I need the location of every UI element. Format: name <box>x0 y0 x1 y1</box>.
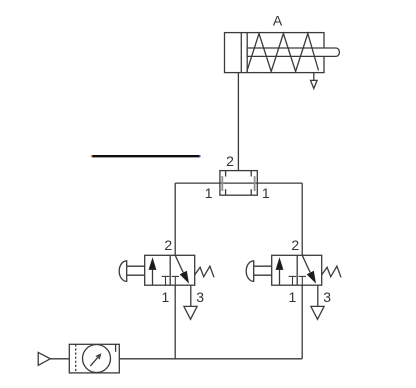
svg-text:1: 1 <box>262 185 270 201</box>
svg-text:3: 3 <box>196 289 204 305</box>
svg-text:2: 2 <box>291 237 299 253</box>
svg-text:3: 3 <box>323 289 331 305</box>
svg-text:1: 1 <box>289 289 297 305</box>
svg-text:1: 1 <box>205 185 213 201</box>
svg-text:A: A <box>273 13 283 29</box>
svg-text:2: 2 <box>164 237 172 253</box>
svg-text:1: 1 <box>162 289 170 305</box>
svg-text:2: 2 <box>226 153 234 169</box>
